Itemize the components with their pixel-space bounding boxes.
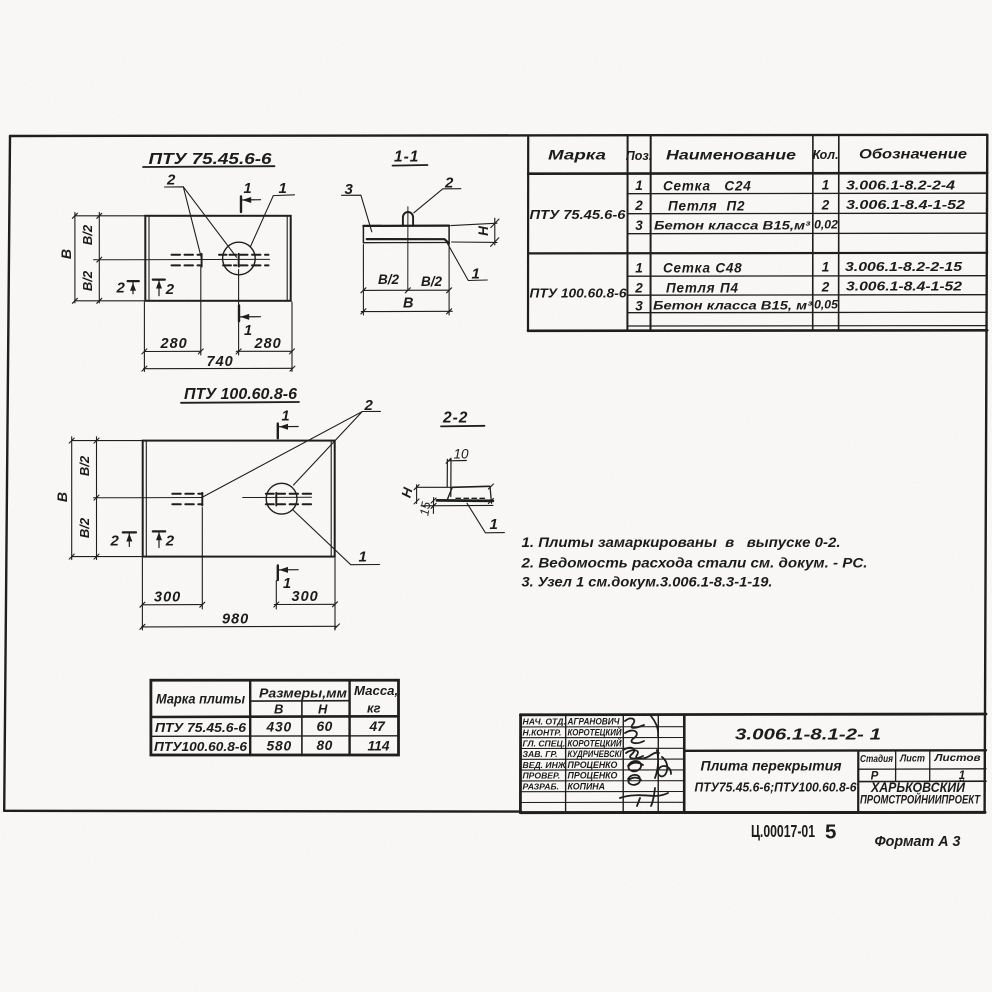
B/2 labels [378, 272, 443, 289]
row 1 texts [155, 719, 386, 735]
org name [860, 779, 981, 807]
B/2 dim line [361, 245, 452, 316]
group 1 row 3 texts [635, 218, 838, 234]
leader 2 label [364, 397, 374, 414]
thin pre-bottom line [628, 325, 988, 327]
object name line 2 [695, 781, 858, 795]
row line g2r3 [628, 311, 988, 313]
dim B/2 labels [77, 455, 92, 538]
dim 300 line right [274, 602, 338, 607]
title underline [393, 164, 428, 167]
title 2-2 [442, 410, 468, 427]
dim 300 line left [140, 602, 205, 607]
title underline [441, 425, 485, 428]
signature name texts [567, 717, 623, 792]
stadia/list separator [895, 751, 897, 782]
dim B/2 labels [80, 224, 95, 291]
row line g1r3 [628, 232, 988, 235]
razmery underline [250, 700, 349, 702]
dim B vertical outer [69, 437, 142, 560]
header bottom [151, 715, 399, 718]
column line Oboznachenie left [838, 135, 840, 330]
header texts [548, 146, 967, 164]
leader 1 [447, 243, 487, 280]
col marka right [249, 680, 251, 755]
leader 1 from circle [293, 510, 380, 565]
group 1 mark [530, 207, 627, 222]
mesh anchor dashes left [172, 254, 202, 267]
group 2 mark [530, 286, 628, 301]
group 2 row 1 texts [635, 259, 963, 276]
top border [520, 713, 986, 717]
plate chamfer edge right [286, 216, 288, 301]
dim 280 labels [160, 336, 282, 352]
B dim line [361, 309, 452, 314]
dim H label [476, 226, 491, 236]
leader 1 to circle [251, 195, 295, 247]
leader 2 label [166, 172, 176, 189]
dim 10 label [454, 446, 470, 461]
column line Poz left [626, 136, 628, 331]
bottom border [520, 811, 985, 814]
mesh anchor dashes at circle [266, 493, 311, 506]
center axis line right segment [243, 496, 312, 498]
group 1 row 2 texts [634, 197, 966, 214]
title PTU 75.45.6-6 [149, 151, 272, 168]
row separator [151, 735, 399, 738]
col labels right [565, 715, 567, 813]
slab section left edge [447, 487, 453, 501]
group separator line [528, 252, 987, 255]
detail circle [266, 483, 297, 514]
row line g2r2 [628, 294, 988, 297]
header texts [156, 683, 398, 717]
dim B label [54, 492, 70, 502]
group 2 row 3 texts [635, 298, 838, 314]
row 2 texts [154, 738, 390, 754]
paper noise overlay [0, 0, 1, 1]
dim 280 line left [142, 349, 203, 354]
section mark 2 inner [153, 280, 175, 298]
left border [519, 715, 522, 813]
stadia header labels [860, 753, 981, 765]
list/listov separator [929, 751, 931, 782]
plate chamfer edge left [145, 441, 147, 556]
plate outline [143, 441, 335, 557]
mesh dots [456, 497, 487, 499]
B label [403, 296, 413, 312]
plate chamfer edge left [148, 216, 150, 301]
dim 740 line [142, 366, 295, 371]
section mark 2 left [116, 279, 139, 296]
doc number cell bottom [684, 749, 986, 752]
slab section top line [452, 486, 489, 487]
dim 300 labels [154, 589, 319, 606]
col date right thick [683, 715, 686, 813]
mesh anchor dashes at circle [219, 254, 269, 267]
dim B label [58, 249, 74, 259]
center axis line [94, 258, 270, 260]
dim B vertical outer [72, 212, 145, 303]
col massa left [348, 680, 350, 755]
plate chamfer edge right [330, 441, 332, 556]
leader 2 [414, 189, 461, 213]
signature scribbles [620, 716, 671, 806]
dim B/2 vertical inner [97, 212, 102, 303]
dim 15 label [417, 501, 433, 517]
slab right hook [490, 486, 492, 503]
row line g1r1 [628, 192, 988, 195]
detail circle [223, 242, 256, 275]
section mark 1 top [278, 409, 298, 439]
bottom dim extension lines [144, 267, 292, 372]
dim 980 line [140, 624, 340, 629]
column line Kol left [812, 135, 814, 330]
row line g2r1 [628, 275, 988, 278]
row line g1r2 [628, 212, 988, 215]
dim B/2 vertical inner [94, 437, 99, 560]
dim H left [414, 484, 493, 506]
header bottom line [528, 172, 987, 175]
section mark 1 top [241, 181, 261, 212]
dim 280 line right [236, 349, 294, 354]
stadia values [871, 770, 966, 782]
leader 1 [467, 503, 504, 533]
title PTU 100.60.8-6 [184, 386, 297, 403]
column line Naimenovanie left [650, 136, 652, 331]
center line [407, 207, 409, 291]
group 1 row 1 texts [635, 178, 956, 194]
slab section bottom thick [437, 499, 493, 502]
dim 15 [431, 498, 436, 514]
section mark 1 bottom [278, 565, 298, 592]
table bottom border [528, 329, 987, 332]
stadia header underline [858, 768, 986, 770]
dim 980 label [222, 612, 249, 628]
mesh anchor dashes left [172, 493, 202, 506]
object name line 1 [701, 758, 842, 773]
stadia row underline [858, 780, 986, 782]
dim H right [451, 218, 499, 246]
col B/H separator [301, 701, 303, 755]
signature row lines [521, 727, 685, 803]
section mark 2 inner [153, 531, 175, 549]
signature role labels [523, 717, 567, 792]
dim H label [399, 486, 416, 500]
col names right [622, 715, 624, 813]
name/org separator vertical [857, 751, 859, 813]
doc number [735, 727, 881, 744]
leader 3 [342, 195, 372, 232]
sheet frame [4, 135, 987, 813]
slab outline [363, 224, 449, 227]
dim 740 label [207, 354, 234, 370]
section mark 2 left [110, 532, 137, 549]
title underline [143, 165, 275, 168]
leader 2 lines [165, 187, 237, 258]
bottom dim extension lines [142, 508, 335, 631]
col sign right [657, 715, 659, 813]
section mark 1 bottom [239, 306, 261, 340]
dim 10 vertical lines [446, 458, 466, 496]
table left border [527, 137, 529, 331]
mesh line inside slab [367, 239, 449, 243]
plate outline [145, 216, 290, 301]
title 1-1 [394, 149, 419, 166]
group 2 row 2 texts [634, 279, 963, 296]
title underline [181, 401, 299, 404]
leader 2 lines [203, 411, 381, 497]
lifting loop [403, 212, 413, 226]
center axis line left segment [94, 497, 203, 499]
outer border [151, 680, 399, 755]
